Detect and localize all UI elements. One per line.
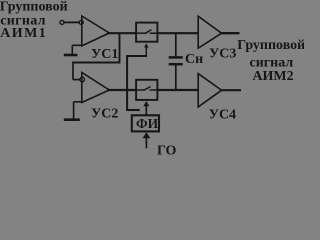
switch key box 1	[136, 23, 157, 42]
ground (below УС1)	[64, 45, 82, 55]
wire: feedback vertical down to УС2 input	[72, 62, 74, 80]
wire: key box 2 to УС4 input	[157, 89, 199, 91]
switch key box 2	[136, 80, 157, 100]
node: output label "Групповой сигнал АИМ2"	[237, 38, 305, 84]
svg-text:АИМ1: АИМ1	[0, 26, 47, 41]
block ФИ (pulse former)	[132, 115, 159, 131]
switch blade key 1	[136, 30, 157, 34]
svg-text:УС1: УС1	[91, 47, 118, 62]
wire: ГО input arrow to ФИ	[143, 132, 151, 148]
node: input label "Групповой сигнал АИМ1"	[0, 0, 68, 41]
svg-text:ФИ: ФИ	[136, 116, 159, 131]
svg-text:АИМ2: АИМ2	[252, 69, 293, 84]
op-amp УС1 (amplifier triangle)	[82, 16, 110, 46]
svg-text:УС4: УС4	[209, 107, 236, 122]
wire: control vertical down	[126, 55, 128, 110]
wire: УС1 output rail to key box 1	[107, 32, 137, 34]
wire: key 1 control arrow	[144, 43, 148, 57]
wire: УС2 output rail to key box 2	[107, 89, 137, 91]
node: УС1 input circle	[79, 20, 83, 24]
wire: УС4 output	[220, 89, 241, 91]
ground (below УС2)	[64, 102, 82, 120]
wire: feedback tap from УС1 output down	[119, 33, 121, 62]
switch blade key 2	[136, 87, 157, 91]
wire: ФИ output arrow to key 2	[143, 101, 149, 115]
input terminal circle	[60, 20, 64, 24]
capacitor Сн	[169, 33, 183, 90]
svg-text:Групповой: Групповой	[237, 38, 304, 53]
wire: control elbow from key 1	[127, 55, 147, 57]
svg-text:УС3: УС3	[209, 47, 236, 62]
op-amp УС3 (amplifier triangle)	[198, 16, 221, 48]
node: УС2 input circle	[80, 77, 85, 82]
wire: stub into УС2 input circle	[73, 79, 80, 81]
svg-text:Групповой: Групповой	[0, 0, 68, 15]
svg-text:ГО: ГО	[157, 143, 177, 158]
wire: input terminal to УС1 input	[64, 21, 79, 23]
op-amp УС4 (amplifier triangle)	[198, 74, 221, 107]
wire: key box 1 to УС3 input	[157, 32, 199, 34]
svg-text:Сн: Сн	[185, 52, 203, 67]
svg-text:УС2: УС2	[91, 107, 118, 122]
value label Сн	[185, 52, 203, 67]
wire: control horizontal toward ФИ output	[126, 109, 140, 111]
op-amp УС2 (amplifier triangle)	[82, 73, 110, 103]
wire: feedback horizontal to left	[73, 62, 121, 64]
wire: УС3 output	[220, 32, 240, 34]
